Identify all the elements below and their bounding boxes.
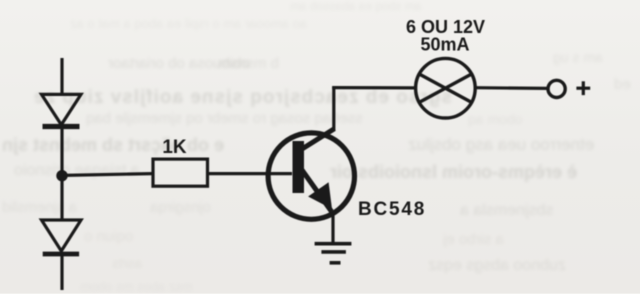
transistor Q1 BC548 [268,129,354,220]
wire: top stub above D1 [60,58,63,95]
faint page bleed-through text [290,0,421,12]
wire: junction to resistor [64,174,152,176]
label 6 OU 12V [406,17,485,37]
resistor 1K [153,159,208,186]
diode D2 [42,220,82,254]
wire: below D2 [60,256,63,290]
label 1K [162,137,187,158]
ground [315,244,352,263]
terminal + output [548,80,565,97]
wire: top horizontal to lamp [332,86,416,90]
lamp 6 OU 12V 50mA [416,58,476,118]
svg-text:BC548: BC548 [358,199,426,220]
label 50mA [420,35,469,55]
wire: D1 cathode to junction [60,129,63,171]
svg-text:1K: 1K [162,137,187,158]
label BC548 [358,199,426,220]
wire: resistor to base [209,172,292,175]
wire: emitter down to ground [331,212,334,243]
wire: collector up [332,86,335,130]
label + [576,81,590,95]
svg-text:50mA: 50mA [420,35,469,55]
wire: lamp to terminal [475,86,547,90]
diode D1 [42,94,82,126]
node: junction dot [56,170,67,181]
wire: junction to D2 anode [60,180,63,220]
